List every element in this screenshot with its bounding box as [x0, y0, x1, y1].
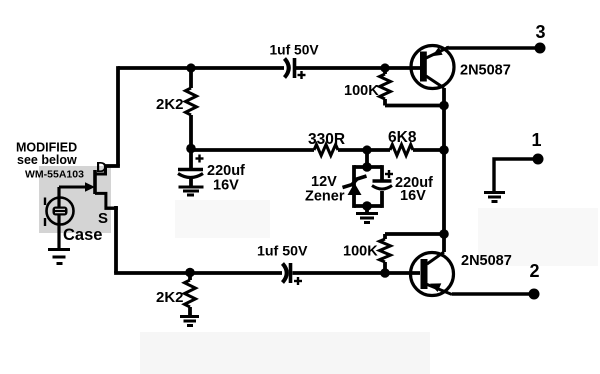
svg-text:6K8: 6K8 — [388, 129, 417, 146]
svg-text:16V: 16V — [213, 178, 239, 194]
svg-text:1uf 50V: 1uf 50V — [270, 43, 320, 58]
svg-text:1uf 50V: 1uf 50V — [257, 244, 308, 260]
svg-text:3: 3 — [535, 22, 545, 42]
svg-text:2N5087: 2N5087 — [461, 253, 512, 269]
svg-text:WM-55A103: WM-55A103 — [25, 169, 84, 181]
svg-text:16V: 16V — [400, 188, 426, 204]
svg-text:330R: 330R — [308, 131, 345, 148]
svg-text:S: S — [98, 210, 108, 227]
svg-text:Zener: Zener — [305, 189, 345, 205]
svg-text:1: 1 — [531, 130, 541, 150]
svg-text:100K: 100K — [343, 244, 378, 260]
svg-text:see below: see below — [17, 153, 77, 167]
svg-text:2: 2 — [529, 261, 539, 281]
svg-text:100K: 100K — [344, 83, 379, 99]
svg-text:D: D — [96, 159, 107, 176]
svg-text:Case: Case — [63, 226, 102, 244]
svg-text:2N5087: 2N5087 — [460, 63, 511, 79]
svg-text:2K2: 2K2 — [156, 96, 184, 113]
svg-text:2K2: 2K2 — [156, 289, 184, 306]
